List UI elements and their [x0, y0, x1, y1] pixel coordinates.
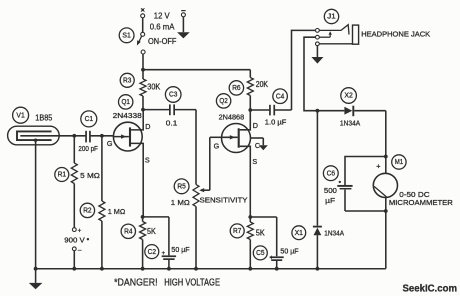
- svg-text:HIGH VOLTAGE: HIGH VOLTAGE: [164, 278, 220, 289]
- svg-text:50 µF: 50 µF: [171, 245, 190, 254]
- svg-text:5K: 5K: [256, 229, 265, 238]
- svg-text:Q2: Q2: [219, 98, 227, 105]
- svg-text:R1: R1: [58, 172, 66, 179]
- svg-text:12 V: 12 V: [154, 12, 171, 21]
- svg-text:D: D: [145, 122, 150, 131]
- svg-text:500: 500: [324, 186, 337, 195]
- svg-text:+: +: [270, 255, 274, 262]
- svg-text:+: +: [162, 250, 166, 257]
- svg-text:R4: R4: [124, 229, 132, 236]
- svg-text:0.6 mA: 0.6 mA: [150, 22, 175, 31]
- svg-text:R3: R3: [123, 78, 131, 85]
- svg-text:R7: R7: [233, 228, 241, 235]
- svg-text:SeekIC.com: SeekIC.com: [403, 284, 458, 295]
- svg-text:R2: R2: [83, 208, 91, 215]
- svg-text:–: –: [78, 247, 82, 254]
- svg-text:*DANGER!: *DANGER!: [114, 278, 158, 289]
- svg-text:C4: C4: [276, 93, 284, 100]
- svg-text:1N34A: 1N34A: [324, 228, 344, 237]
- svg-text:D: D: [253, 121, 258, 130]
- svg-text:C1: C1: [85, 116, 93, 123]
- svg-text:ON-OFF: ON-OFF: [148, 37, 176, 46]
- svg-text:G: G: [214, 141, 220, 150]
- svg-text:X2: X2: [344, 93, 353, 100]
- svg-text:C2: C2: [148, 249, 156, 256]
- svg-text:C6: C6: [327, 170, 335, 177]
- svg-text:C3: C3: [169, 92, 177, 99]
- svg-text:S1: S1: [122, 33, 131, 40]
- svg-text:1B85: 1B85: [35, 113, 52, 122]
- svg-text:20K: 20K: [256, 80, 269, 89]
- svg-text:200 pF: 200 pF: [78, 144, 98, 153]
- svg-text:R6: R6: [232, 85, 240, 92]
- svg-text:1 MΩ: 1 MΩ: [108, 207, 126, 216]
- svg-text:J1: J1: [327, 14, 336, 21]
- svg-text:S: S: [252, 157, 257, 166]
- svg-text:C: C: [255, 141, 260, 150]
- svg-text:µF: µF: [325, 196, 335, 205]
- svg-text:1 MΩ: 1 MΩ: [171, 198, 190, 207]
- svg-text:30K: 30K: [147, 83, 161, 92]
- svg-text:R5: R5: [177, 184, 185, 191]
- svg-text:+: +: [376, 162, 380, 171]
- svg-text:2N4868: 2N4868: [219, 112, 245, 121]
- svg-text:5K: 5K: [147, 227, 156, 236]
- svg-text:2N4338: 2N4338: [113, 111, 142, 120]
- svg-text:900 V: 900 V: [64, 236, 85, 245]
- svg-text:G: G: [107, 139, 113, 148]
- svg-text:0.1: 0.1: [166, 118, 178, 127]
- svg-text:X1: X1: [295, 230, 304, 237]
- svg-text:5 MΩ: 5 MΩ: [80, 171, 100, 180]
- svg-text:MICROAMMETER: MICROAMMETER: [389, 198, 453, 207]
- svg-text:Q1: Q1: [122, 99, 130, 106]
- svg-text:V1: V1: [16, 112, 25, 119]
- svg-text:+: +: [78, 227, 82, 234]
- svg-text:C5: C5: [256, 250, 264, 257]
- svg-text:1.0 µF: 1.0 µF: [265, 118, 287, 127]
- svg-text:1N34A: 1N34A: [340, 118, 361, 127]
- svg-text:50 µF: 50 µF: [280, 246, 299, 255]
- svg-text:M1: M1: [395, 159, 403, 166]
- svg-text:HEADPHONE JACK: HEADPHONE JACK: [361, 29, 430, 38]
- svg-text:SENSITIVITY: SENSITIVITY: [200, 196, 248, 205]
- svg-text:S: S: [145, 155, 150, 164]
